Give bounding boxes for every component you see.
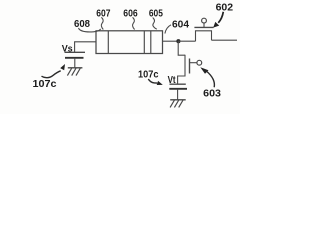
arrow for label 602 (213, 12, 223, 28)
ground (left) (67, 68, 82, 76)
transistor Q602 gate bar (194, 26, 213, 28)
leader for label 608 (79, 28, 101, 32)
node A junction dot (176, 39, 180, 43)
svg-text:605: 605 (149, 9, 163, 20)
leader for label 604 (165, 25, 171, 34)
ground (right) (170, 100, 186, 108)
wire: Q602 drain output (212, 39, 238, 41)
svg-text:602: 602 (216, 2, 234, 14)
gate divider left (607) (107, 31, 109, 54)
terminal circle of Q603 (197, 60, 202, 65)
leader for label 606 (133, 17, 135, 29)
wire: Cs to ground (74, 58, 76, 68)
leader for label 607 (101, 17, 103, 29)
transistor Q603 gate lead (190, 62, 197, 64)
svg-text:608: 608 (74, 19, 90, 30)
svg-text:107c: 107c (138, 70, 159, 81)
transistor Q602 channel (196, 31, 212, 41)
svg-text:107c: 107c (33, 79, 57, 90)
gate divider mid (605 left) (143, 31, 145, 54)
svg-text:604: 604 (172, 20, 189, 31)
wire: node A to transistor 602 source (178, 40, 196, 42)
arrow for label 107c (left) (42, 64, 66, 78)
transistor Q603 gate bar (189, 59, 191, 74)
terminal circle of Q602 (202, 18, 207, 23)
capacitor Ct bottom plate (169, 88, 187, 90)
arrow for label 603 (200, 67, 214, 87)
leader for label 605 (153, 18, 157, 30)
capacitor Cs bottom plate (65, 57, 84, 59)
arrow for label 107c (right) (148, 79, 163, 85)
wire: node A down to transistor 603 (178, 41, 185, 55)
transistor Q602 gate lead (203, 23, 205, 27)
wire: box right edge to node A (163, 40, 179, 42)
svg-text:Vs: Vs (62, 44, 73, 55)
svg-text:603: 603 (203, 88, 221, 100)
wire: Ct to ground (177, 89, 179, 100)
CCD register box (gates 605-608) (96, 31, 163, 54)
transistor Q603 channel (178, 55, 185, 84)
capacitor Cs top plate (65, 51, 86, 53)
svg-text:606: 606 (123, 9, 138, 20)
capacitor Ct top plate (170, 83, 186, 85)
svg-text:Vt: Vt (168, 75, 177, 86)
svg-text:607: 607 (96, 9, 111, 20)
gate divider right (605 right) (150, 31, 152, 54)
wire: Vs node to box left (75, 42, 96, 53)
